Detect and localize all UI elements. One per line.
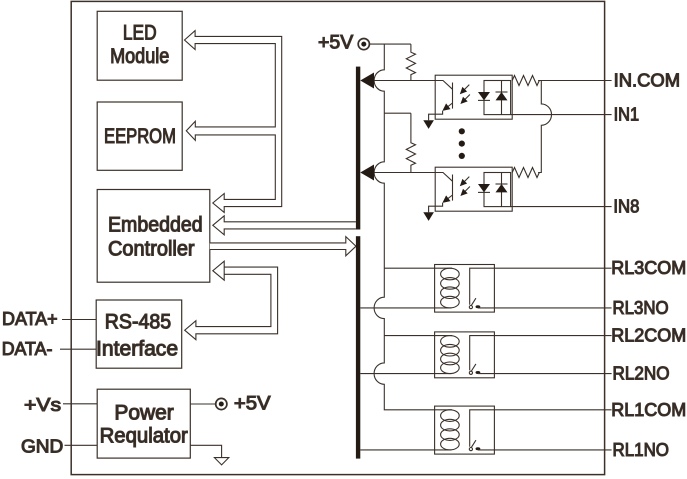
svg-text:Module: Module	[110, 45, 169, 68]
wire opto8 collector line	[374, 172, 435, 174]
wire opto1 collector line	[374, 80, 435, 82]
svg-text:RL2COM: RL2COM	[611, 325, 686, 346]
svg-text:GND: GND	[21, 435, 63, 456]
wire Power Requlator +5V output	[190, 403, 215, 405]
wire GND to Power Requlator	[65, 444, 98, 446]
wire +5V vertical rail (with hops)	[374, 44, 435, 410]
svg-text:RL2NO: RL2NO	[613, 363, 670, 384]
arrowhead into barrier (opto 8 output)	[360, 165, 374, 181]
svg-text:+Vs: +Vs	[24, 394, 61, 415]
wire RL3NO	[478, 307, 612, 309]
block LED Module	[97, 11, 182, 80]
bus arrow: isolation barrier to Embedded Controller	[213, 216, 356, 235]
wire RL2NO	[478, 373, 612, 375]
svg-text:DATA+: DATA+	[2, 308, 58, 329]
isolation barrier bar (lower segment)	[356, 236, 360, 458]
terminal +5V top	[358, 39, 369, 50]
wire IN1	[511, 114, 612, 116]
bus arrows: controller to LED Module and EEPROM (hollow pipe with 3 arrowheads)	[185, 31, 282, 213]
wire RL2COM	[494, 335, 611, 337]
svg-text:RS-485: RS-485	[105, 310, 171, 333]
terminal +5V (regulator output)	[216, 398, 227, 409]
wire IN8	[511, 206, 612, 208]
relay RL2	[435, 332, 495, 378]
svg-text:RL3COM: RL3COM	[611, 257, 686, 278]
wire IN.COM drop with hop over IN1	[538, 81, 551, 173]
relay RL3	[435, 265, 495, 313]
svg-text:LED: LED	[123, 21, 157, 44]
svg-text:+5V: +5V	[318, 32, 353, 54]
svg-text:DATA-: DATA-	[2, 338, 53, 359]
optocoupler ISO1 (IN1 channel)	[423, 75, 512, 129]
svg-text:+5V: +5V	[234, 393, 271, 415]
svg-text:IN.COM: IN.COM	[614, 70, 681, 91]
resistor R4 (IN8 channel series)	[512, 168, 539, 178]
block Power Requlator	[97, 389, 190, 458]
svg-text:IN8: IN8	[613, 196, 639, 217]
svg-text:RL3NO: RL3NO	[613, 297, 669, 318]
wire RL1COM	[494, 409, 611, 411]
svg-text:IN1: IN1	[614, 104, 640, 125]
resistor R2	[406, 113, 415, 172]
wire Power Requlator ground	[190, 445, 221, 457]
svg-text:Power: Power	[114, 401, 173, 424]
wire rail branch to resistor R2	[384, 112, 411, 114]
resistor R3 (IN.COM series, top)	[512, 76, 539, 86]
wire RL2 coil drive (from barrier)	[360, 373, 451, 375]
svg-text:RL1NO: RL1NO	[613, 439, 670, 460]
wire +Vs to Power Requlator	[63, 403, 97, 405]
block Embedded Controller U1	[97, 190, 210, 283]
wire RL3 coil drive (from barrier)	[360, 307, 451, 309]
svg-text:Requlator: Requlator	[100, 425, 188, 448]
block EEPROM	[97, 102, 182, 170]
block RS-485 Interface	[96, 300, 182, 368]
svg-text:EEPROM: EEPROM	[104, 125, 176, 148]
svg-text:Controller: Controller	[108, 237, 195, 260]
relay RL1	[435, 406, 495, 454]
wire DATA- to RS-485	[60, 348, 96, 350]
svg-text:RL1COM: RL1COM	[611, 399, 686, 420]
wire IN.COM	[538, 80, 612, 82]
optocoupler ISO8 (IN8 channel)	[423, 167, 512, 221]
wire RL2 coil +5V	[384, 335, 434, 337]
svg-text:Interface: Interface	[96, 337, 178, 360]
wire RL3COM	[494, 267, 611, 269]
arrowhead into barrier (opto 1 output)	[360, 73, 374, 89]
bus arrow: Embedded Controller to isolation barrier (relay drive)	[210, 237, 356, 256]
wire RL1NO	[478, 449, 612, 451]
ground symbol (power)	[214, 458, 228, 465]
ellipsis dots between opto channels	[459, 128, 465, 134]
wire RL1 coil drive (from barrier)	[360, 449, 451, 451]
isolation barrier bar (upper segment)	[356, 67, 360, 230]
wire RL3 coil +5V	[384, 267, 434, 269]
bus arrows: Embedded Controller and RS-485 Interface exchange	[185, 261, 278, 340]
wire +5V feed	[369, 43, 411, 45]
wire DATA+ to RS-485	[62, 319, 96, 321]
svg-text:Embedded: Embedded	[108, 213, 203, 236]
resistor R1	[406, 44, 415, 80]
outer border frame	[71, 1, 604, 474]
